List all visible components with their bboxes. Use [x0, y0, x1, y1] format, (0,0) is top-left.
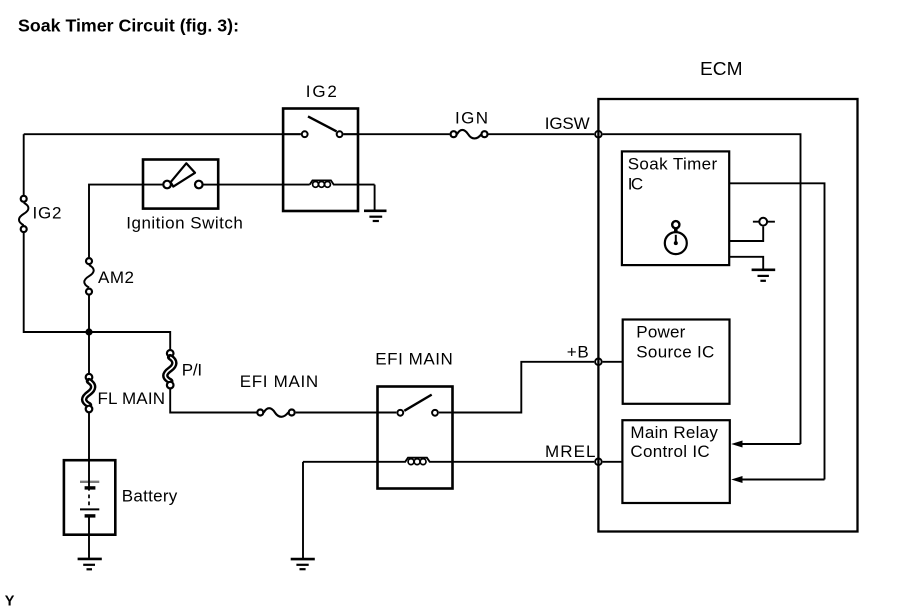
wire: IGN fuse to IGSW node	[488, 133, 594, 135]
wire: left vertical from top line to IG2 fuse	[23, 134, 25, 195]
ground (Soak Timer IC)	[752, 270, 776, 281]
wire: ignition switch feed from AM2	[89, 185, 143, 258]
wire: relay coil right to MREL node	[453, 461, 595, 463]
wire: Soak Timer IC to inner vertical (right)	[729, 183, 824, 479]
Main Relay Control IC U3	[622, 420, 729, 503]
battery	[64, 460, 115, 558]
wire: FL MAIN to battery	[88, 413, 90, 461]
timer icon (stopwatch)	[665, 221, 687, 254]
wire: IG2 relay switch to IGN fuse	[344, 133, 450, 135]
wire: IG2 relay coil to ground	[374, 185, 376, 210]
ground (battery)	[78, 559, 102, 569]
svg-text:FL MAIN: FL MAIN	[98, 389, 166, 408]
fusible link FL MAIN	[84, 374, 93, 412]
wire: IG2 fuse down and across to P/I drop	[24, 233, 171, 349]
fuse EFI MAIN	[257, 408, 294, 417]
svg-text:Control IC: Control IC	[630, 442, 709, 461]
svg-text:+B: +B	[567, 342, 589, 361]
terminal (backup power)	[753, 218, 775, 226]
wire: P/I down and right to EFI MAIN fuse	[170, 389, 257, 413]
svg-text:Ignition Switch: Ignition Switch	[126, 214, 243, 233]
wire: AM2 to junction	[88, 296, 90, 333]
ground (EFI relay coil)	[291, 559, 315, 569]
wire: ignition switch to IG2 relay coil	[218, 184, 310, 186]
svg-text:Y: Y	[5, 593, 15, 609]
relay IG2	[283, 109, 375, 212]
wire: IGSW node to inner ECM vertical	[603, 134, 801, 444]
svg-text:EFI MAIN: EFI MAIN	[375, 350, 453, 369]
svg-text:IG2: IG2	[33, 204, 62, 223]
Power Source IC U2	[623, 320, 730, 404]
svg-text:IG2: IG2	[306, 82, 337, 101]
node +B	[595, 359, 602, 366]
arrowhead 2	[731, 476, 742, 483]
svg-text:Soak Timer Circuit (fig. 3):: Soak Timer Circuit (fig. 3):	[18, 15, 239, 35]
wire: EFI MAIN fuse to relay	[296, 412, 397, 414]
ignition switch SW1	[143, 160, 218, 209]
wire: terminal down to Soak Timer IC	[729, 227, 763, 241]
relay EFI MAIN	[303, 387, 453, 489]
wire: junction down to FL MAIN	[88, 332, 90, 373]
fusible link P/I	[165, 350, 174, 388]
svg-text:Battery: Battery	[122, 486, 178, 505]
wire: MREL node into Main Relay Control IC	[603, 461, 623, 463]
svg-text:MREL: MREL	[545, 442, 596, 461]
fuse IGN	[451, 130, 488, 139]
fuse IG2	[19, 196, 28, 232]
wire: top IGSW line left segment	[24, 133, 301, 135]
fuse AM2	[84, 258, 93, 295]
svg-text:Soak Timer: Soak Timer	[628, 154, 718, 173]
node: junction dot	[85, 328, 92, 335]
svg-text:ECM: ECM	[700, 59, 743, 79]
ground (IG2 relay)	[364, 211, 387, 221]
node MREL	[595, 459, 602, 466]
svg-text:Power: Power	[636, 322, 685, 341]
wire: arrow line into Main Relay Control IC (from Soak Timer IC)	[741, 479, 825, 481]
ECM box	[598, 99, 857, 532]
svg-text:Main Relay: Main Relay	[630, 423, 718, 442]
wire: Soak Timer IC to ground	[729, 257, 763, 269]
wire: +B node into Power Source IC	[603, 361, 623, 363]
svg-text:AM2: AM2	[98, 268, 134, 287]
svg-text:P/I: P/I	[182, 360, 202, 379]
wire: arrow line into Main Relay Control IC (from IGSW)	[741, 443, 801, 445]
svg-text:Source IC: Source IC	[636, 342, 714, 361]
Soak Timer IC U1	[622, 151, 729, 265]
svg-text:IGSW: IGSW	[545, 114, 590, 133]
arrowhead 1	[731, 441, 742, 448]
node IGSW	[595, 131, 602, 138]
wire: relay coil left to ground	[302, 462, 304, 558]
wire: relay switch to +B node	[453, 362, 595, 413]
svg-text:IC: IC	[628, 174, 644, 193]
svg-text:EFI MAIN: EFI MAIN	[240, 372, 319, 391]
